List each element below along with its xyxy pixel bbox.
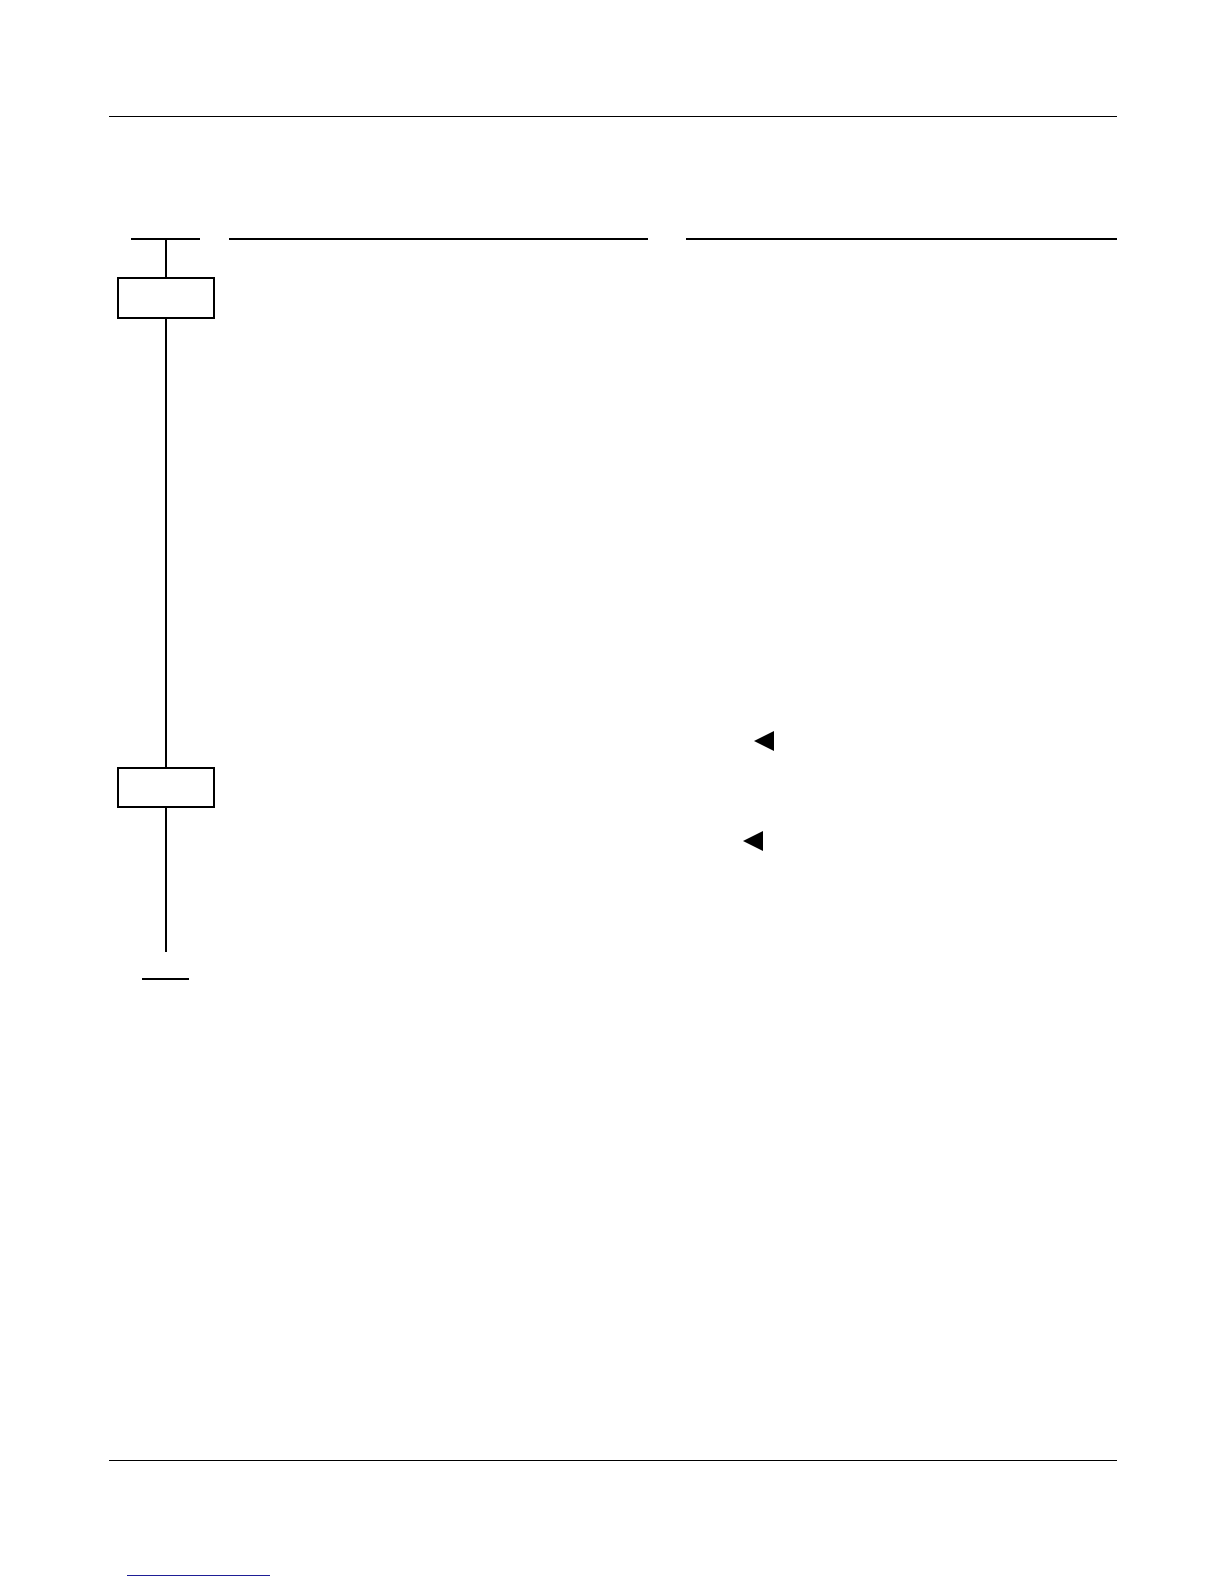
left column header rule (229, 238, 649, 240)
process box 1 (117, 277, 215, 319)
hyperlink underline (127, 1575, 271, 1577)
right column header rule (686, 238, 1117, 240)
wire: ladder top bar (131, 238, 200, 240)
change-bar arrow 1 (754, 731, 774, 751)
change-bar arrow 2 (743, 831, 763, 851)
wire: vertical connector segment 1 (165, 239, 167, 278)
wire: ladder end bar (142, 978, 189, 980)
top rule (109, 116, 1118, 118)
bottom rule (109, 1460, 1118, 1462)
wire: vertical connector segment 2 (165, 319, 167, 768)
process box 2 (117, 767, 215, 808)
wire: vertical connector segment 3 (165, 808, 167, 952)
